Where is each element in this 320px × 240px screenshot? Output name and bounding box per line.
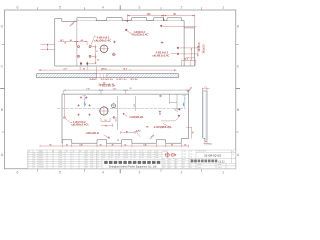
vertical line 122 [135, 96, 137, 111]
hole U4 [89, 55, 91, 57]
hole U3 [78, 55, 80, 57]
lower view dark labels [86, 88, 177, 122]
cross hole L7 [77, 114, 79, 116]
title block [28, 150, 236, 169]
svg-text:124.1: 124.1 [116, 116, 118, 122]
red extension left [63, 94, 65, 117]
diamond hole U12 [177, 47, 180, 50]
svg-text:1: 1 [222, 6, 224, 10]
svg-text:240±1: 240±1 [101, 67, 108, 70]
cross hole U11 [161, 41, 164, 44]
svg-text:36: 36 [66, 144, 68, 146]
cross hole L6 [88, 104, 90, 106]
strip mid dims [99, 83, 110, 86]
long dim over strip [39, 69, 177, 71]
vertical line 124 [116, 96, 118, 130]
svg-text:30: 30 [171, 144, 173, 146]
plate outline with bottom tabs [62, 94, 189, 143]
cross hole L5 [77, 104, 79, 106]
hole U1 [78, 46, 80, 48]
bend line right [183, 28, 185, 66]
bottom small dims [182, 60, 196, 66]
diamond hole U14 [160, 25, 163, 28]
lower view red labels [49, 85, 194, 147]
dim under big circle [101, 118, 113, 127]
projection symbol (red) [164, 152, 176, 158]
inner border frame [5, 10, 236, 169]
small hole U8 cross [112, 53, 116, 57]
leader U14 [162, 26, 196, 28]
leader L14 [161, 116, 180, 121]
svg-text:(1:1): (1:1) [219, 159, 225, 163]
big hole U7 [100, 45, 108, 53]
svg-text:3: 3 [138, 171, 140, 175]
svg-text:Ø13±0.2k: Ø13±0.2k [101, 79, 114, 81]
svg-text:ckLØ6.5s2.4C: ckLØ6.5s2.4C [152, 55, 169, 58]
frame group [0, 5, 240, 174]
ring hole L17 [160, 95, 162, 97]
svg-text:4: 4 [102, 6, 104, 10]
svg-text:4-Ø13:Ø7.2k: 4-Ø13:Ø7.2k [100, 85, 116, 88]
hole U5 [80, 63, 82, 65]
svg-text:36: 36 [184, 144, 186, 146]
left outside dim [41, 45, 55, 50]
svg-text:35: 35 [193, 132, 195, 134]
parts list rows [28, 152, 163, 166]
mid columns [109, 150, 162, 169]
svg-text:Ø3.5k: Ø3.5k [131, 79, 139, 81]
small hole L2 cross [111, 103, 116, 108]
svg-text:140: 140 [143, 143, 146, 146]
cross hole L12 [159, 111, 161, 113]
small hole L2 [112, 104, 116, 108]
upper view dimensions (red) [39, 14, 199, 85]
svg-text:5: 5 [59, 6, 61, 10]
blue arrow at end [183, 101, 185, 107]
svg-text:2: 2 [181, 171, 183, 175]
M5 leader [104, 135, 111, 139]
hole U6 [86, 63, 88, 65]
leader U10 [127, 31, 133, 34]
diamond hole U13 [177, 53, 180, 56]
extension end dots [127, 19, 165, 22]
svg-text:21-08-02-03: 21-08-02-03 [204, 154, 221, 158]
svg-text:1-M4(Ø3.2)L: 1-M4(Ø3.2)L [129, 116, 144, 119]
top centre mark [119, 5, 121, 10]
svg-text:36: 36 [124, 144, 126, 146]
svg-text:6: 6 [17, 6, 19, 10]
lower view dark dims [64, 90, 189, 130]
right vert dim [186, 127, 192, 138]
top dim line [127, 14, 194, 28]
svg-text:28.5±0.5: 28.5±0.5 [203, 44, 205, 54]
svg-text:10: 10 [97, 60, 99, 62]
upper flange view [41, 18, 197, 66]
diamond hole L14 [178, 114, 180, 116]
svg-text:2: 2 [181, 6, 183, 10]
svg-text:140: 140 [147, 13, 152, 16]
right side strip view [202, 86, 212, 146]
right side dim lines [180, 46, 198, 58]
dot hole L15 [126, 131, 127, 132]
bottom mini dim [121, 132, 136, 134]
svg-text:39.5±0.5: 39.5±0.5 [199, 42, 201, 52]
lower main view [57, 94, 189, 143]
small hole U8 [113, 53, 116, 56]
svg-text:140: 140 [79, 143, 82, 146]
projection symbol cell [162, 150, 196, 169]
small circle L16 [159, 113, 160, 114]
parts list tiny text bars [28, 151, 234, 168]
svg-text:8: 8 [96, 51, 97, 53]
lower view red dims [40, 94, 192, 147]
left zone ticks [2, 45, 5, 133]
top dim arrows [127, 15, 194, 16]
svg-text:Shanghai Keshen Power Equipmen: Shanghai Keshen Power Equipment Co., Ltd [109, 166, 157, 169]
svg-text:1.5: 1.5 [204, 86, 207, 88]
verticals 121 [169, 94, 177, 112]
big hole L1 [100, 107, 108, 115]
company name blob glyphs [104, 161, 160, 169]
cross hole L3 [80, 96, 82, 98]
right section [196, 150, 236, 169]
svg-text:4-Ø3.5c: 4-Ø3.5c [117, 78, 128, 81]
svg-text:90: 90 [49, 144, 51, 146]
cross hole L8 [88, 114, 90, 116]
strip bottom dim [204, 142, 212, 145]
left cluster dim line [59, 42, 88, 45]
blue bend centerline [57, 107, 186, 109]
leader L9 [65, 118, 72, 122]
big hole U7 crosshair [99, 44, 109, 54]
bend line left [76, 21, 78, 66]
svg-text:1-Ø4(Ø3.2)L: 1-Ø4(Ø3.2)L [153, 126, 173, 129]
dot hole L11 [123, 113, 125, 115]
top zone ticks [38, 7, 202, 10]
part name blob glyphs [191, 159, 225, 163]
svg-text:30: 30 [111, 144, 113, 146]
svg-text:1-M5cnØ4.2L: 1-M5cnØ4.2L [86, 132, 101, 135]
right zone ticks [236, 45, 239, 133]
cross hole L4 [85, 96, 87, 98]
strip top dim [202, 88, 210, 91]
leader F ext [163, 123, 169, 126]
svg-text:4: 4 [102, 171, 104, 175]
svg-text:ckLØ20s2.4C: ckLØ20s2.4C [132, 34, 149, 37]
leader C [171, 52, 177, 55]
leader to text A [91, 36, 97, 45]
svg-text:13: 13 [117, 140, 119, 142]
right vertical mini dim [89, 45, 97, 64]
strip tab section gap [97, 74, 107, 78]
svg-text:36: 36 [99, 144, 101, 146]
blue arrow at left end [84, 101, 86, 107]
bend line top [77, 20, 184, 22]
diamond hole U10 [125, 29, 128, 32]
chain ticks below plate [80, 67, 130, 74]
hole U2 [89, 46, 91, 48]
diamond hole L13 [178, 108, 180, 110]
side section strip (hatched) [37, 73, 179, 78]
svg-text:ckLØ8s2.4C: ckLØ8s2.4C [94, 39, 111, 42]
svg-text:4-Ø4.5: 4-Ø4.5 [90, 78, 98, 81]
svg-text:13.5: 13.5 [208, 144, 212, 146]
upper view red texts [60, 13, 206, 86]
cross hole U9 [113, 41, 116, 44]
svg-text:ckLØ8s2.4CL: ckLØ8s2.4CL [71, 124, 90, 127]
bottom chain [40, 145, 189, 147]
svg-text:3: 3 [138, 6, 140, 10]
bottom zone ticks [38, 169, 202, 172]
svg-text:1: 1 [222, 171, 224, 175]
4-R2 leader [137, 134, 141, 137]
big hole L1 crosshair [99, 106, 110, 117]
svg-text:6: 6 [17, 171, 19, 175]
circled dot hole L9 [64, 117, 66, 119]
ring hole L10 [113, 116, 115, 118]
parts list columns [33, 150, 102, 169]
top dim line [64, 90, 189, 94]
svg-text:5: 5 [59, 171, 61, 175]
leader L11 [124, 114, 127, 116]
plate outline with top tabs [55, 18, 195, 66]
